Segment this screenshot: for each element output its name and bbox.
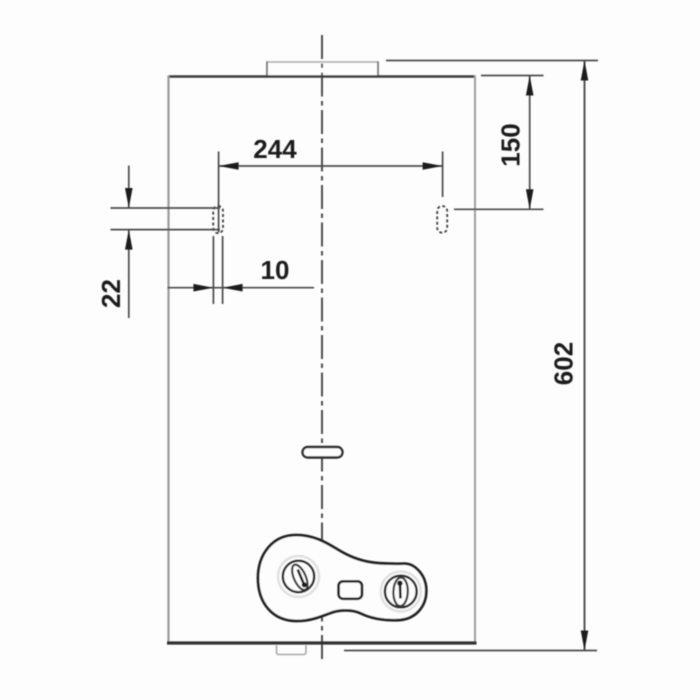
dim 22: upper extension line [111,207,221,209]
left knob tilted oval [289,562,311,592]
dim 10: dimension line with outside arrows [168,284,315,292]
center oval slot on body [303,447,343,458]
left mounting slot (hidden, dashed) [213,206,223,233]
dim 150: bottom extension line [454,208,544,210]
svg-text:22: 22 [96,279,126,308]
dim 244: dimension line with arrows [219,162,443,170]
right knob screw slot with dot [397,581,402,599]
left knob halo ring [278,556,319,597]
right knob outer circle [385,576,417,608]
flue collar on top of body [267,61,378,75]
left knob screw slot with dot [298,570,307,588]
svg-text:10: 10 [261,255,290,285]
dim 602: top extension line [386,60,598,62]
vertical centerline (dash-dot) [321,35,323,663]
dim 150: top extension line [481,75,544,77]
svg-text:150: 150 [496,123,526,166]
right mounting slot (hidden, dashed) [437,206,447,233]
small rounded rectangle window between knobs [339,581,363,599]
right knob halo ring [381,572,421,612]
right knob vertical oval [393,577,408,606]
dim 10: left extension line [212,236,214,304]
svg-text:244: 244 [253,134,297,164]
appliance body outline [167,76,477,644]
dim 22: dimension line with outside arrows [125,166,133,319]
dim 22: lower extension line [111,229,221,231]
dim 244: left extension line [218,152,220,233]
left knob outer circle [283,561,314,592]
svg-text:602: 602 [549,342,579,385]
dim 10: right extension line [222,236,224,304]
valve assembly peanut-shaped plate [258,535,426,621]
dim 602: dimension line with arrows [581,61,589,651]
dim 244: right extension line [442,152,444,198]
bottom tab below body [277,645,307,655]
dim 150: dimension line with arrows [526,76,534,210]
dim 602: bottom extension line [344,650,597,652]
